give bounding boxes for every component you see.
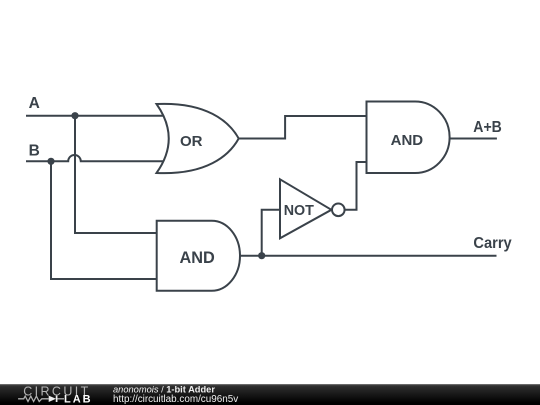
footer bar: [0, 384, 540, 405]
svg-text:Carry: Carry: [473, 235, 512, 252]
OR gate U1: [157, 104, 239, 173]
svg-text:NOT: NOT: [284, 203, 314, 219]
wire B with hop over vertical wire: [26, 155, 166, 161]
wire OR output to AND1 top input: [239, 116, 367, 139]
wire from node B junction down to AND2 bottom input: [51, 161, 158, 279]
NOT gate U4 bubble: [332, 204, 345, 217]
svg-text:LAB: LAB: [64, 394, 93, 405]
logo wire to LAB: [57, 398, 64, 400]
wire from node A junction down to AND2 top input: [75, 116, 158, 233]
wire Carry: [262, 255, 497, 257]
svg-text:OR: OR: [180, 133, 203, 150]
wire AND2 output: [240, 255, 262, 257]
AND gate U2 (sum): [367, 102, 450, 174]
junction dot on carry node: [258, 252, 265, 259]
svg-text:A: A: [29, 95, 40, 112]
logo resistor symbol: [18, 396, 49, 401]
wire NOT output to AND1 bottom input: [345, 162, 367, 210]
svg-text:AND: AND: [391, 132, 424, 149]
svg-text:AND: AND: [179, 249, 215, 267]
NOT gate U4 triangle: [280, 179, 331, 238]
logo diode symbol: [49, 396, 56, 402]
logo diode bar: [56, 396, 58, 402]
junction dot on wire B: [47, 158, 54, 165]
wire carry junction up to NOT input: [262, 210, 280, 256]
svg-text:A+B: A+B: [473, 119, 502, 136]
AND gate U3 (carry): [157, 221, 240, 291]
svg-text:B: B: [29, 143, 40, 160]
wire A: [26, 115, 166, 117]
svg-text:http://circuitlab.com/cu96n5v: http://circuitlab.com/cu96n5v: [113, 394, 238, 405]
junction dot on wire A: [71, 112, 78, 119]
wire AND1 output A+B: [450, 138, 497, 140]
svg-text:anonomois / 1-bit Adder: anonomois / 1-bit Adder: [113, 385, 215, 395]
